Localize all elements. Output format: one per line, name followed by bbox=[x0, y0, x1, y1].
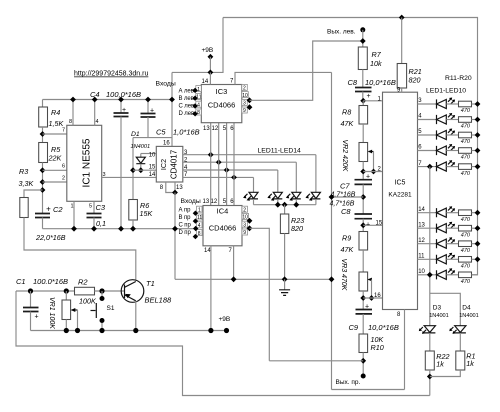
svg-text:Вых. пр.: Вых. пр. bbox=[336, 379, 361, 386]
svg-text:+9В: +9В bbox=[202, 47, 214, 54]
wire: LED11 drop bbox=[253, 177, 255, 192]
node: IC4 pin14 rail bbox=[208, 328, 213, 333]
node: R22/R1 junction bbox=[427, 374, 433, 380]
resistor 470 row 14 bbox=[459, 210, 472, 216]
svg-text:13: 13 bbox=[418, 222, 425, 228]
ground symbol bbox=[284, 279, 286, 290]
svg-text:22,0*16В: 22,0*16В bbox=[35, 233, 66, 242]
LED6 bbox=[437, 206, 456, 217]
wire: IC1 pin 1 to ground rail bbox=[73, 201, 75, 228]
resistor R23 bbox=[280, 214, 288, 234]
svg-text:470: 470 bbox=[461, 232, 471, 238]
wire: top loop y=17.5 bbox=[223, 18, 478, 105]
svg-text:R3: R3 bbox=[19, 167, 28, 176]
wire: +9V stub bbox=[209, 57, 211, 73]
svg-text:4: 4 bbox=[96, 119, 99, 125]
svg-text:D пр: D пр bbox=[179, 230, 192, 236]
resistor R10 bbox=[359, 334, 368, 353]
node: VR1 bottom bbox=[64, 328, 69, 333]
svg-text:R2: R2 bbox=[78, 278, 88, 287]
wire: branch to D4 bbox=[430, 293, 461, 325]
wire: LED12 to rail bbox=[277, 199, 279, 205]
resistor R2 bbox=[75, 287, 95, 295]
svg-text:14: 14 bbox=[418, 207, 425, 213]
wire: control vertical IC3 pin13 to IC4 pin13 bbox=[210, 123, 212, 206]
svg-text:3,3K: 3,3K bbox=[19, 179, 35, 188]
svg-text:T1: T1 bbox=[146, 279, 155, 288]
LED14 bbox=[305, 192, 320, 201]
node: IC4 output b bbox=[247, 225, 253, 231]
svg-text:470: 470 bbox=[461, 155, 471, 161]
wire: R21 from top loop bbox=[401, 18, 403, 64]
svg-text:14: 14 bbox=[204, 248, 211, 254]
LED8 bbox=[437, 237, 456, 248]
svg-text:+9В: +9В bbox=[219, 316, 231, 323]
svg-text:4: 4 bbox=[418, 114, 422, 120]
node: ground bus / VSS vertical bbox=[329, 276, 335, 282]
wire: IC5 pin 8 down bbox=[404, 310, 406, 390]
svg-text:1,0*16В: 1,0*16В bbox=[173, 128, 200, 137]
wire: midpoint to VSS vertical bbox=[332, 196, 364, 198]
svg-text:+: + bbox=[367, 93, 371, 100]
svg-text:C8: C8 bbox=[348, 78, 358, 87]
wire: IC5 pin 11 LED row bbox=[418, 258, 437, 260]
svg-text:8: 8 bbox=[397, 312, 401, 318]
wire: left vertical chain x=42.5 rail to R4 bbox=[42, 100, 44, 108]
svg-text:1k: 1k bbox=[436, 360, 444, 369]
svg-text:100.0*16В: 100.0*16В bbox=[33, 277, 68, 286]
wire: LED12 drop bbox=[277, 170, 279, 192]
wire: branch to R3 bbox=[24, 190, 43, 198]
wire: IC1 pin 8 from rail bbox=[72, 100, 74, 126]
wire: R23 bottom to ground bus bbox=[284, 234, 286, 280]
svg-text:470: 470 bbox=[461, 279, 471, 285]
svg-text:С лев: С лев bbox=[179, 104, 195, 110]
wire: IC5 pin 10 LED row bbox=[418, 274, 437, 276]
wire: IC2 pin 15 bbox=[133, 169, 156, 171]
wire: C9 to R10 bbox=[362, 314, 364, 334]
svg-text:S1: S1 bbox=[107, 305, 115, 312]
svg-text:CD4066: CD4066 bbox=[209, 224, 237, 233]
IC3 left pin stubs 1,11,4,8 bbox=[196, 86, 202, 92]
svg-text:10: 10 bbox=[149, 153, 156, 159]
LED4 bbox=[437, 144, 456, 155]
wire: IC2 pin 2 to LED13 drop bbox=[183, 161, 296, 163]
resistor 470 row 7 bbox=[459, 164, 472, 170]
wire: VR3 bottom to C9 bbox=[362, 291, 364, 310]
node: input C right-ch on ground rail bbox=[193, 226, 198, 231]
svg-text:470: 470 bbox=[461, 217, 471, 223]
resistor 470 row 10 bbox=[459, 272, 472, 278]
LED3 bbox=[437, 129, 456, 140]
wire: R7 to C8 bbox=[362, 70, 364, 88]
resistor 470 row 12 bbox=[459, 241, 472, 247]
svg-text:22K: 22K bbox=[48, 154, 63, 163]
node: R10/IC4-output junction bbox=[360, 358, 366, 364]
wire: R10 bottom to output bbox=[362, 353, 364, 377]
svg-text:12: 12 bbox=[211, 199, 218, 205]
wire: resistor to rail row 13 bbox=[472, 227, 478, 229]
wire: IC2 pin 3 to LED14 drop bbox=[183, 154, 316, 156]
node: rail row 5 bbox=[475, 132, 481, 138]
resistor 470 row 4 bbox=[459, 117, 472, 123]
node: input B left bbox=[192, 96, 197, 101]
node: junction pin2 bbox=[40, 179, 46, 185]
svg-text:CD4066: CD4066 bbox=[208, 101, 236, 110]
svg-text:1: 1 bbox=[71, 204, 74, 210]
wire: IC4 pin 14 down to +9V rail bbox=[210, 246, 212, 331]
node: control line 12 bbox=[216, 159, 222, 165]
wire: IC1 pin 7 bbox=[43, 133, 67, 135]
svg-text:4: 4 bbox=[198, 223, 201, 229]
svg-text:10,0*16В: 10,0*16В bbox=[368, 323, 399, 332]
svg-text:1: 1 bbox=[198, 207, 201, 213]
svg-text:13: 13 bbox=[176, 185, 183, 191]
potentiometer VR2 bbox=[359, 143, 368, 162]
svg-text:470: 470 bbox=[461, 139, 471, 145]
wire: C7 to C8b midpoint bbox=[362, 184, 364, 214]
node: input C left bbox=[192, 103, 197, 108]
LED5 bbox=[437, 160, 456, 171]
node: IC4 output a bbox=[247, 218, 253, 224]
wire: resistor to rail row 10 bbox=[472, 274, 478, 276]
wire: R22 bottom junction bbox=[429, 370, 431, 396]
svg-text:2: 2 bbox=[243, 207, 246, 213]
node: rail row 4 bbox=[475, 117, 481, 123]
wire: IC5 pin 1 bbox=[363, 100, 382, 102]
wire: IC5 pin 2 bbox=[363, 171, 382, 173]
node: LED13 rail bbox=[293, 202, 299, 208]
svg-text:8: 8 bbox=[198, 231, 201, 237]
node: VR1 top bbox=[64, 288, 69, 293]
IC4 CD4066 box bbox=[203, 206, 242, 246]
node: rail row 7 bbox=[475, 164, 481, 170]
potentiometer VR1 bbox=[65, 291, 67, 300]
svg-text:3: 3 bbox=[103, 172, 106, 178]
svg-text:12: 12 bbox=[212, 126, 219, 132]
node: pin7 row tap for D3/D4 bbox=[427, 164, 433, 170]
wire: bottom ground bus y=279.3 bbox=[175, 278, 332, 280]
node: cap midpoint bbox=[360, 194, 366, 200]
svg-text:R7: R7 bbox=[372, 50, 382, 59]
svg-text:47K: 47K bbox=[341, 119, 355, 128]
wire: IC5 pin 16 bbox=[363, 297, 382, 299]
wire: IC5 pin 4 LED row bbox=[418, 119, 437, 121]
wire: IC2 pin 10 to D1 bbox=[141, 153, 157, 155]
svg-text:IC1 NE555: IC1 NE555 bbox=[82, 138, 93, 187]
svg-text:8: 8 bbox=[160, 185, 164, 191]
LED2 bbox=[437, 113, 456, 124]
wire: control vertical IC3 pin12 to IC4 pin12 bbox=[218, 123, 220, 206]
wire: LED13 drop bbox=[295, 162, 297, 192]
wire: R9 to VR3 bbox=[362, 250, 364, 272]
node: crossing ground rail bbox=[172, 226, 178, 232]
switch S1 bbox=[101, 291, 103, 331]
VR3 wiper bbox=[368, 279, 371, 281]
svg-text:5: 5 bbox=[418, 129, 422, 135]
wire: LED8 to resistor bbox=[446, 243, 458, 245]
node: rail row 6 bbox=[475, 148, 481, 154]
svg-text:10: 10 bbox=[242, 215, 248, 221]
svg-text:10: 10 bbox=[418, 269, 425, 275]
svg-text:1N4001: 1N4001 bbox=[131, 144, 151, 150]
svg-text:Вых. лев.: Вых. лев. bbox=[327, 29, 356, 36]
wire: R4 bottom to R5 top bbox=[42, 127, 44, 143]
svg-text:В пр: В пр bbox=[179, 215, 192, 221]
svg-text:C7: C7 bbox=[340, 182, 350, 191]
svg-text:820: 820 bbox=[291, 224, 303, 233]
svg-text:BEL188: BEL188 bbox=[145, 296, 173, 305]
wire: y=137.6 link to pin16 vertical bbox=[133, 137, 172, 139]
svg-text:10,0*16В: 10,0*16В bbox=[365, 78, 396, 87]
svg-text:470: 470 bbox=[461, 248, 471, 254]
wire: R5 bottom down to C2 bbox=[42, 163, 44, 214]
svg-text:10k: 10k bbox=[370, 59, 382, 68]
node: pin10 row tap bbox=[427, 272, 433, 278]
resistor 470 row 5 bbox=[459, 132, 472, 138]
wire: LED2 to resistor bbox=[446, 119, 458, 121]
LED7 bbox=[437, 222, 456, 233]
wire: D4 to R1 bbox=[459, 333, 461, 351]
node: input D right-ch bbox=[193, 234, 198, 239]
svg-text:LED1-LED10: LED1-LED10 bbox=[426, 88, 466, 95]
wire: IC2 pins 8+13 tie below bbox=[166, 182, 175, 193]
wire: LED6 to resistor bbox=[446, 212, 458, 214]
wire: IC1 pin 6 bbox=[43, 169, 67, 171]
wire: D3 to R22 bbox=[429, 333, 431, 351]
svg-text:470: 470 bbox=[461, 108, 471, 114]
node: +9V rail end terminal bbox=[224, 328, 229, 333]
svg-text:R9: R9 bbox=[342, 234, 351, 243]
wire: R6 bottom to ground rail bbox=[132, 220, 134, 229]
svg-text:IC4: IC4 bbox=[217, 207, 229, 216]
svg-text:VR2 420K: VR2 420K bbox=[341, 140, 348, 172]
svg-text:В лев: В лев bbox=[179, 96, 194, 102]
wire: IC3 output to Vyh lev riser bbox=[250, 41, 363, 100]
wire: battery+ rail y=291 bbox=[16, 290, 75, 292]
svg-text:6: 6 bbox=[418, 145, 422, 151]
svg-text:470: 470 bbox=[461, 171, 471, 177]
wire: rail to R23 bbox=[284, 205, 286, 214]
wire: IC4 output to R10 net bbox=[250, 228, 270, 360]
wire: resistor to rail row 5 bbox=[472, 134, 478, 136]
node: R7 top junction bbox=[360, 38, 366, 44]
resistor 470 row 6 bbox=[459, 148, 472, 154]
node: junction R3 branch bbox=[40, 187, 46, 193]
wire: IC5 pin 14 LED row bbox=[418, 212, 437, 214]
transistor T1 bbox=[121, 280, 144, 303]
wire: LED14 drop bbox=[315, 155, 317, 193]
node: rail row 11 bbox=[475, 256, 481, 262]
node: rail row 3 bbox=[475, 101, 481, 107]
svg-text:C9: C9 bbox=[349, 323, 359, 332]
svg-text:C1: C1 bbox=[16, 277, 26, 286]
wire: LED11 to rail bbox=[253, 199, 255, 205]
svg-text:11: 11 bbox=[197, 215, 202, 221]
wire: IC5 pin 6 LED row bbox=[418, 150, 437, 152]
svg-text:47K: 47K bbox=[341, 245, 355, 254]
svg-text:15K: 15K bbox=[140, 209, 154, 218]
svg-text:VR3 470K: VR3 470K bbox=[340, 259, 347, 291]
svg-text:1N4001: 1N4001 bbox=[459, 313, 479, 319]
resistor 470 row 13 bbox=[459, 225, 472, 231]
node: input A right-ch bbox=[193, 211, 198, 216]
wire: C5 bottom to +9V/pin16 line bbox=[147, 117, 149, 138]
wire: R2 to T1 base bbox=[95, 290, 125, 292]
svg-text:5: 5 bbox=[89, 204, 92, 210]
svg-text:2: 2 bbox=[243, 86, 246, 92]
wire: battery left loop to R22 junction bbox=[16, 291, 430, 396]
wire: LED4 to resistor bbox=[446, 150, 458, 152]
svg-text:100,0*16В: 100,0*16В bbox=[106, 90, 141, 99]
wire: R3 bottom to T1 collector bbox=[24, 218, 136, 280]
wire: IC2 ground drop x=175 bbox=[174, 193, 176, 280]
wire: resistor to rail row 3 bbox=[472, 103, 478, 105]
capacitor C5 bbox=[147, 100, 149, 114]
node: control line 13 bbox=[208, 152, 214, 158]
svg-text:C8: C8 bbox=[341, 207, 351, 216]
wire: IC5 pin 15 bbox=[363, 224, 382, 226]
svg-text:10: 10 bbox=[242, 93, 248, 99]
wire: C3 bottom to ground rail bbox=[93, 218, 95, 229]
resistor R7 bbox=[358, 47, 367, 70]
node: IC3 output b bbox=[247, 104, 253, 110]
svg-text:С пр: С пр bbox=[179, 223, 192, 229]
svg-text:А лев: А лев bbox=[179, 89, 194, 95]
IC4 right pin stubs 2,10,3,9 bbox=[242, 206, 248, 212]
node: R2/S1 junction bbox=[99, 288, 104, 293]
node: R23/ground junction bbox=[282, 276, 288, 282]
node: Vyh lev terminal bbox=[360, 27, 365, 32]
LED11 bbox=[243, 192, 258, 201]
svg-text:Входы: Входы bbox=[181, 198, 201, 205]
svg-text:7: 7 bbox=[229, 248, 233, 254]
svg-text:4: 4 bbox=[197, 102, 200, 108]
svg-text:820: 820 bbox=[409, 76, 421, 85]
wire: vertical x=133 down to R6 bbox=[132, 138, 134, 200]
svg-text:8: 8 bbox=[69, 119, 72, 125]
capacitor C1 bbox=[30, 291, 32, 308]
svg-text:Входы: Входы bbox=[156, 81, 176, 88]
node: D1 bottom on pin15 wire bbox=[138, 167, 144, 173]
resistor R6 bbox=[129, 200, 138, 221]
resistor R3 bbox=[20, 198, 28, 218]
wire: LED3 to resistor bbox=[446, 134, 458, 136]
resistor R21 bbox=[397, 64, 406, 89]
svg-text:0,1: 0,1 bbox=[96, 219, 106, 228]
IC4 left pin stubs 1,11,4,8 bbox=[197, 206, 203, 212]
node: IC3 output a bbox=[247, 97, 253, 103]
node: LED12 rail bbox=[275, 202, 281, 208]
wire: R8 to VR2 bbox=[362, 124, 364, 143]
wire: IC2 pin 4 to LED12 drop bbox=[183, 169, 278, 171]
svg-text:А пр: А пр bbox=[179, 208, 192, 214]
wire: IC4 pin 7 to ground bus bbox=[233, 246, 235, 279]
wire: resistor to rail row 4 bbox=[472, 119, 478, 121]
resistor R5 bbox=[39, 143, 48, 163]
svg-text:KA2281: KA2281 bbox=[388, 192, 412, 199]
wire: VR2 bottom to pin2 bbox=[362, 162, 364, 180]
svg-text:14: 14 bbox=[202, 79, 209, 85]
IC5 KA2281 box bbox=[383, 92, 418, 309]
node: +9V stub top bbox=[208, 54, 214, 60]
svg-text:1k: 1k bbox=[466, 359, 474, 368]
wire: R1 bottom to junction bbox=[430, 370, 461, 377]
wire: IC5 pin 5 LED row bbox=[418, 134, 437, 136]
wire: IC2 pin 7 to LED11 drop bbox=[183, 176, 254, 178]
wire: C8 to IC5 pin1 bbox=[362, 92, 364, 101]
wire: LED cathode rail y=204.7 bbox=[254, 204, 316, 206]
IC3 CD4066 box bbox=[201, 85, 242, 123]
svg-text:1N4001: 1N4001 bbox=[429, 313, 449, 319]
svg-text:12: 12 bbox=[418, 238, 425, 244]
svg-text:7: 7 bbox=[62, 128, 65, 134]
VR1 wiper bbox=[72, 309, 78, 311]
wire: LED1 to resistor bbox=[446, 103, 458, 105]
wire: resistor to rail row 14 bbox=[472, 212, 478, 214]
resistor R4 bbox=[39, 107, 48, 127]
svg-text:2: 2 bbox=[62, 176, 65, 182]
svg-text:1: 1 bbox=[197, 87, 200, 93]
svg-text:9: 9 bbox=[243, 108, 246, 114]
svg-text:+: + bbox=[366, 174, 370, 181]
svg-text:CD4017: CD4017 bbox=[170, 149, 179, 179]
capacitor C2 bbox=[35, 214, 50, 218]
node: Vyh pr terminal bbox=[361, 374, 366, 379]
capacitor C3 bbox=[87, 214, 102, 218]
wire: LED14 to rail bbox=[315, 199, 317, 205]
wire: IC1 pin 5 to C3 bbox=[93, 201, 95, 213]
node: input D left bbox=[192, 111, 197, 116]
wire: IC5 pin 13 LED row bbox=[418, 227, 437, 229]
wire: IC1 pin 4 from rail bbox=[94, 100, 96, 126]
wire: resistor to rail row 11 bbox=[472, 258, 478, 260]
svg-text:100K: 100K bbox=[79, 297, 97, 306]
node: rail row 13 bbox=[475, 225, 481, 231]
svg-text:R10: R10 bbox=[371, 343, 384, 352]
wire: IC5 pin 12 LED row bbox=[418, 243, 437, 245]
wire: LED13 to rail bbox=[295, 199, 297, 205]
wire: VSS link to pin8 y=389.5 bbox=[332, 389, 405, 391]
wire: control vertical IC3 pin6 to IC4 pin6 bbox=[233, 123, 235, 206]
wire: D3/D4 feed vertical bbox=[429, 167, 431, 326]
node: S1 bottom rail bbox=[99, 328, 104, 333]
wire: resistor to rail row 7 bbox=[472, 166, 478, 168]
wire: output bus y=360.8 bbox=[269, 360, 363, 362]
svg-text:C2: C2 bbox=[53, 205, 63, 214]
svg-text:3: 3 bbox=[418, 98, 422, 104]
svg-text:R4: R4 bbox=[51, 108, 60, 117]
svg-text:D4: D4 bbox=[462, 305, 471, 312]
svg-text:3: 3 bbox=[243, 101, 246, 107]
svg-text:IC2: IC2 bbox=[159, 159, 168, 170]
svg-text:C5: C5 bbox=[156, 128, 166, 137]
wire: LED5 to resistor bbox=[446, 166, 458, 168]
node: input A left bbox=[192, 88, 197, 93]
svg-text:D лев: D лев bbox=[179, 111, 195, 117]
node: rail row 12 bbox=[475, 241, 481, 247]
wire: LED10 to resistor bbox=[446, 274, 458, 276]
resistor R1 bbox=[456, 351, 465, 370]
svg-text:C4: C4 bbox=[90, 90, 100, 99]
wire: C4 bottom to ground rail bbox=[120, 117, 122, 229]
wire: ground rail y=228.7 bbox=[43, 228, 196, 230]
svg-text:D1: D1 bbox=[131, 131, 140, 138]
svg-text:8: 8 bbox=[197, 110, 200, 116]
wire: +9V horizontal y=72.4 bbox=[172, 18, 223, 73]
wire: pin1 to R8 bbox=[362, 101, 364, 106]
IC3 right pin labels 2,10,3,9 bbox=[242, 84, 248, 90]
